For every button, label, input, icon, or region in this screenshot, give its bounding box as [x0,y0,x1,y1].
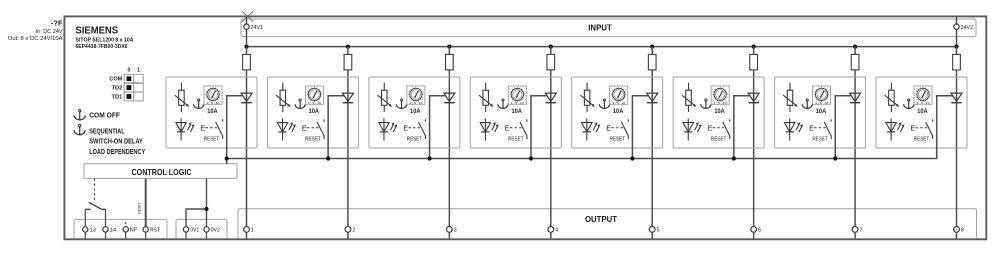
wire: sense line channel 1 [227,96,243,159]
terminal output 8 [954,227,964,234]
stub below output 8 [956,232,958,239]
electronic fuse symbol channel 8 [885,83,899,112]
fuse F8 [953,54,961,70]
svg-text:6EP4438-7FB00-3DX0: 6EP4438-7FB00-3DX0 [76,44,129,50]
svg-text:-?F: -?F [51,18,63,27]
electronic switch channel 6 [708,119,730,139]
svg-text:10A: 10A [511,108,522,115]
svg-text:E: E [201,123,206,132]
anchor icon channel 6 [701,99,711,109]
CONTROL LOGIC box [84,164,237,179]
diode D1 [241,93,252,103]
electronic fuse symbol channel 2 [276,83,290,112]
DIP switch TD2 position (0) [127,85,132,90]
terminal output 5 [649,227,659,234]
stub below RST [145,232,147,239]
current setting dial channel 6 [711,86,729,105]
junction dot sense bus channel 7 [833,156,837,160]
svg-text:13: 13 [90,228,96,234]
electronic fuse symbol channel 3 [378,83,392,112]
junction dot input bus channel 1 [244,45,248,49]
LED channel 4 [480,118,499,140]
supply connection X mark [242,11,253,22]
svg-text:10A: 10A [917,108,928,115]
terminal output 1 [244,227,254,234]
svg-text:1 . 5 . 10: 1 . 5 . 10 [714,101,728,105]
wire: 24V2 down to input bus [956,30,958,47]
wire: feed above 24V2 [956,16,958,24]
svg-text:CONTROL LOGIC: CONTROL LOGIC [132,167,192,177]
svg-text:RESET: RESET [204,137,220,143]
svg-text:1 . 5 . 10: 1 . 5 . 10 [207,101,221,105]
junction dot 0V link [204,207,208,211]
terminal output 4 [548,227,558,234]
stub below 0V1 [185,232,187,239]
svg-text:RESET: RESET [914,137,930,143]
svg-text:E: E [809,123,814,132]
svg-text:LOAD DEPENDENCY: LOAD DEPENDENCY [89,147,145,156]
svg-text:1 . 5 . 10: 1 . 5 . 10 [511,101,525,105]
anchor icon channel 8 [903,99,913,109]
current setting dial channel 7 [813,86,831,105]
INPUT area box [241,19,976,37]
terminal output 3 [446,227,456,234]
stub below 13 [84,232,86,239]
wire: 24V1 down to input bus [246,30,248,47]
junction dot input bus channel 5 [650,45,654,49]
svg-text:SWITCH-ON DELAY: SWITCH-ON DELAY [89,137,143,146]
diode D8 [951,93,962,103]
svg-text:INPUT: INPUT [588,22,612,32]
stub below output 7 [854,232,856,239]
diode D5 [647,93,658,103]
svg-text:COM OFF: COM OFF [89,111,120,120]
svg-text:14: 14 [110,228,116,234]
fuse F7 [851,54,859,70]
terminal 0V1 [183,227,199,234]
terminal 13 [83,227,96,234]
wire: sense line channel 8 [937,96,953,159]
junction dot input bus channel 8 [954,45,958,49]
channel block 8 [876,77,967,148]
svg-text:RESET: RESET [407,137,423,143]
svg-text:0V1: 0V1 [190,228,199,234]
wire: sense line channel 4 [531,96,547,159]
channel block 1 [166,77,257,148]
current setting dial channel 8 [914,86,932,105]
channel block 3 [369,77,460,148]
LED channel 5 [582,118,601,140]
terminal NF [123,227,138,234]
fuse F1 [243,54,251,70]
channel block 7 [775,77,866,148]
wire: sense line channel 6 [734,96,750,159]
DIP switch grid [124,74,143,101]
svg-text:0V2: 0V2 [211,228,220,234]
svg-text:TD2: TD2 [112,86,123,92]
electronic switch channel 4 [505,119,527,139]
svg-text:RESET: RESET [136,202,141,214]
wire: feed channel 8 [956,47,958,227]
junction dot input bus channel 6 [752,45,756,49]
svg-text:10A: 10A [613,108,624,115]
svg-text:SIEMENS: SIEMENS [76,25,119,36]
stub below output 3 [448,232,450,239]
wire: sense line channel 3 [430,96,446,159]
wire: feed channel 6 [753,47,755,227]
DIP switch COM position (0) [127,76,132,81]
channel block 4 [470,77,561,148]
wire: sense line channel 5 [632,96,648,159]
diode D7 [850,93,861,103]
junction dot sense bus channel 3 [427,156,431,160]
relay contact 13-14 [85,202,105,209]
svg-text:E: E [302,123,307,132]
svg-text:SEQUENTIAL: SEQUENTIAL [89,126,125,135]
channel block 6 [673,77,764,148]
LED channel 3 [379,118,398,140]
current setting dial channel 3 [407,86,425,105]
svg-text:24V2: 24V2 [961,25,974,31]
junction dot sense bus channel 1 [225,156,229,160]
svg-text:1 . 5 . 10: 1 . 5 . 10 [612,101,626,105]
fuse F4 [547,54,555,70]
wire: feed above 24V1 [246,16,248,24]
anchor icon: COM OFF [74,110,85,121]
wire: sense bus [227,139,937,158]
svg-text:RESET: RESET [508,137,524,143]
electronic fuse symbol channel 7 [783,83,797,112]
channel block 5 [572,77,663,148]
svg-text:7: 7 [859,228,862,234]
svg-text:1: 1 [137,67,140,73]
electronic switch channel 3 [403,119,425,139]
svg-text:E: E [403,123,408,132]
terminal output 6 [751,227,761,234]
anchor icon channel 7 [802,99,812,109]
svg-text:1 . 5 . 10: 1 . 5 . 10 [815,101,829,105]
terminal block 13/14/NF/RST [74,219,167,239]
svg-text:1 . 5 . 10: 1 . 5 . 10 [917,101,931,105]
svg-text:0: 0 [127,67,130,73]
current setting dial channel 1 [204,86,222,105]
svg-text:Out: 8 x DC 24V/10A: Out: 8 x DC 24V/10A [8,36,63,42]
current setting dial channel 5 [610,86,628,105]
electronic switch channel 8 [911,119,933,139]
diode D6 [748,93,759,103]
terminal output 7 [852,227,862,234]
stub below output 1 [246,232,248,239]
svg-text:RESET: RESET [609,137,625,143]
terminal 14 [103,227,116,234]
svg-text:SITOP SEL1200 8 x 10A: SITOP SEL1200 8 x 10A [76,38,135,44]
diode D2 [342,93,353,103]
wire: sense line channel 7 [835,96,851,159]
stub below 14 [105,232,107,239]
svg-text:TD1: TD1 [112,94,123,100]
svg-text:6: 6 [758,228,761,234]
svg-text:10A: 10A [410,108,421,115]
junction dot input bus channel 7 [853,45,857,49]
wire: feed channel 7 [854,47,856,227]
wire: feed channel 4 [550,47,552,227]
svg-text:RESET: RESET [711,137,727,143]
terminal RST [143,227,161,234]
wire: feed channel 2 [347,47,349,227]
anchor icon channel 1 [193,99,203,109]
electronic fuse symbol channel 5 [580,83,594,112]
stub below output 2 [347,232,349,239]
svg-text:E: E [911,123,916,132]
junction dot sense bus channel 5 [630,156,634,160]
svg-text:10A: 10A [714,108,725,115]
stub below NF [125,232,127,239]
electronic switch channel 2 [302,119,324,139]
svg-text:RESET: RESET [812,137,828,143]
LED channel 2 [277,118,296,140]
electronic switch channel 5 [606,119,628,139]
wire: sense line channel 2 [328,96,344,159]
fuse F5 [648,54,656,70]
stub below output 5 [651,232,653,239]
channel block 2 [267,77,358,148]
current setting dial channel 2 [305,86,323,105]
junction dot sense bus channel 2 [326,156,330,160]
anchor icon channel 2 [295,99,305,109]
wire: contact to terminal 14 [105,209,107,226]
svg-text:NF: NF [130,228,138,234]
svg-text:10A: 10A [816,108,827,115]
wire: feed channel 3 [448,47,450,227]
junction dot input bus channel 3 [447,45,451,49]
electronic fuse symbol channel 4 [479,83,493,112]
junction dot input bus channel 4 [549,45,553,49]
diode D4 [545,93,556,103]
LED channel 7 [784,118,803,140]
fuse F2 [344,54,352,70]
svg-text:5: 5 [657,228,660,234]
svg-text:4: 4 [555,228,558,234]
stub below output 6 [753,232,755,239]
electronic switch channel 7 [809,119,831,139]
anchor icon: sequential [74,125,85,136]
wire: input bus [247,46,957,48]
LED channel 1 [176,118,195,140]
svg-text:RST: RST [150,228,161,234]
stub below output 4 [550,232,552,239]
junction dot sense bus channel 4 [529,156,533,160]
svg-text:2: 2 [352,228,355,234]
LED channel 6 [683,118,702,140]
svg-text:COM: COM [109,77,122,83]
electronic fuse symbol channel 1 [175,83,189,112]
wire: dashed control line to contact [93,179,95,201]
svg-text:1: 1 [251,228,254,234]
svg-text:OUTPUT: OUTPUT [585,214,618,224]
svg-text:RESET: RESET [305,137,321,143]
wire: feed channel 5 [651,47,653,227]
svg-text:E: E [708,123,713,132]
anchor icon channel 4 [498,99,508,109]
terminal 24V2 [954,24,973,31]
electronic fuse symbol channel 6 [682,83,696,112]
LED channel 8 [886,118,905,140]
junction dot sense bus channel 6 [732,156,736,160]
svg-text:10A: 10A [309,108,320,115]
current setting dial channel 4 [508,86,526,105]
wire: feed channel 1 [246,47,248,227]
wire: sense bus to control logic [226,159,228,165]
wire: NF stub [125,222,127,227]
fuse F3 [446,54,454,70]
diode D3 [444,93,455,103]
wire: 0V1 L-link [186,209,207,227]
fuse F6 [750,54,758,70]
terminal block 0V1/0V2 [176,219,227,239]
wire: 0V2 to control logic [206,179,208,227]
anchor icon channel 3 [396,99,406,109]
svg-text:3: 3 [454,228,457,234]
OUTPUT area box [238,209,977,240]
wire: contact to terminal 13 [84,209,86,226]
terminal 0V2 [204,227,220,234]
svg-text:24V1: 24V1 [251,25,264,31]
terminal 24V1 [244,24,263,31]
anchor icon channel 5 [599,99,609,109]
svg-text:E: E [505,123,510,132]
junction dot input bus channel 2 [346,45,350,49]
stub below 0V2 [206,232,208,239]
wire: RST to control logic (reset line) [145,179,147,227]
terminal output 2 [345,227,355,234]
device outline box [64,16,986,239]
svg-text:In: DC 24V: In: DC 24V [36,29,63,35]
svg-text:10A: 10A [207,108,218,115]
DIP switch TD1 position (0) [127,94,132,99]
svg-text:8: 8 [961,228,964,234]
svg-text:E: E [606,123,611,132]
electronic switch channel 1 [201,119,223,139]
svg-text:1 . 5 . 10: 1 . 5 . 10 [308,101,322,105]
svg-text:1 . 5 . 10: 1 . 5 . 10 [409,101,423,105]
